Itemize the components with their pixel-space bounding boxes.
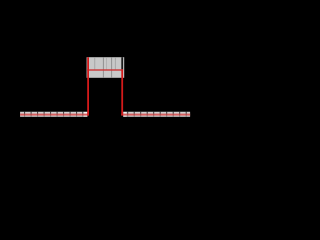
right envelope band gray [127,112,190,117]
dark divider above falling edge [121,57,123,69]
box divider full b [102,57,105,78]
right band sample gaps [127,112,187,117]
pulse top envelope box [87,57,125,78]
box divider upper e [114,57,117,69]
left red baseline [20,114,89,116]
left envelope band gray [20,112,83,117]
pulse top red line [87,69,123,70]
falling edge red vertical [121,69,123,115]
right red baseline [121,114,190,116]
rising edge red vertical [87,57,89,115]
waveform scope trace: red pulse with gray min/max envelope (drawn at 2x, scaled down) [0,0,196,166]
box divider full d [110,57,113,78]
right envelope first segment white [123,112,127,117]
box divider upper a [93,57,96,69]
left envelope last segment white [83,112,87,117]
box divider upper c [105,57,108,69]
left band sample gaps [24,112,83,117]
